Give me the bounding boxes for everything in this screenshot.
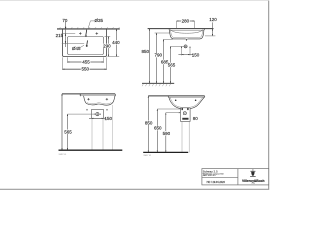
fixation view: trap pointer arrows: [94, 114, 96, 115]
trap view: 650 stub: [157, 108, 180, 110]
trap view: fixation stud left: [181, 108, 183, 110]
plan view: leader for diameter 45: [79, 45, 84, 48]
svg-text:565: 565: [64, 129, 72, 134]
svg-text:440: 440: [112, 40, 120, 45]
fixation view: left triangle mark: [86, 109, 88, 111]
fixation view: dim 150: [89, 117, 106, 119]
svg-text:Villeroy&Boch: Villeroy&Boch: [242, 179, 264, 183]
fixation view: left fixation cross: [87, 98, 89, 100]
trap view: apron inner line: [170, 97, 203, 107]
svg-text:70: 70: [62, 18, 68, 23]
front view: floor line: [142, 82, 174, 84]
fixation view: right pipe line: [102, 118, 104, 150]
fixation view: right triangle mark: [106, 109, 108, 111]
plan view: basin outer rect: [63, 29, 107, 57]
fixation view: trap box: [91, 110, 103, 119]
svg-text:150: 150: [105, 116, 113, 121]
trap view: left fixation dot: [175, 100, 177, 102]
svg-text:9M87 01: 9M87 01: [59, 154, 68, 156]
front view: dim 150: [181, 46, 183, 55]
svg-text:80: 80: [193, 116, 199, 121]
page frame bottom: [0, 188, 269, 190]
front view: rim end caps: [169, 29, 204, 31]
front view: floor hatching: [142, 84, 171, 87]
plan view: drain slot: [86, 40, 89, 46]
svg-text:150: 150: [192, 52, 200, 57]
trap view: rim level line: [148, 95, 204, 97]
svg-text:550: 550: [81, 67, 89, 72]
svg-text:215: 215: [56, 33, 64, 38]
trap view: right fixation dot: [195, 100, 197, 102]
title block divider vertical: [237, 169, 239, 185]
trap view: trap circle: [183, 112, 186, 115]
trap view: 590 stub: [166, 112, 179, 114]
svg-text:790: 790: [154, 53, 162, 58]
front view: dim 280: [177, 20, 195, 22]
front view: apron inner line: [171, 30, 203, 37]
plan view: wall hatching: [60, 27, 120, 28]
fixation view: right fixation cross: [106, 98, 108, 100]
trap view: dim line 650: [156, 109, 158, 152]
front view: trap level line: [171, 45, 185, 47]
front view: 685 extension stub: [164, 38, 173, 40]
front view: inner bowl curve: [170, 29, 203, 33]
plan view: wall line: [57, 28, 120, 30]
trap view: fixation stud right: [187, 108, 189, 110]
fixation view: rim level line: [62, 93, 115, 95]
trap view: dim line 590: [165, 113, 167, 153]
front view: dim 120: [212, 22, 214, 36]
front view: rim underside line: [170, 29, 204, 31]
svg-text:565: 565: [168, 62, 176, 67]
trap view: outlet bar: [182, 118, 188, 120]
front view: dim line 685: [163, 39, 165, 83]
fixation view: trap level stub: [68, 113, 96, 115]
plan view: dim 455: [67, 57, 69, 63]
front view: drain stub: [186, 39, 188, 41]
fixation view: rim underside: [80, 95, 115, 97]
plan view: dim 290: [105, 36, 111, 38]
title block frame: [202, 169, 269, 185]
plan view: dim 550: [62, 57, 64, 70]
plan view: leader line for diameter 35: [90, 20, 94, 22]
title block divider horizontal: [202, 176, 238, 178]
trap view: rim underside: [169, 96, 205, 98]
svg-text:Ø35: Ø35: [95, 18, 104, 23]
front view: dim line 790: [156, 33, 158, 83]
svg-text:4A07 5001 001: 4A07 5001 001: [203, 174, 216, 177]
svg-text:Ø45: Ø45: [72, 46, 81, 51]
svg-text:120: 120: [209, 17, 217, 22]
plan view: tap hole slot: [85, 30, 88, 36]
svg-text:850: 850: [145, 120, 153, 125]
svg-text:1748: 1748: [252, 183, 256, 185]
svg-text:590: 590: [163, 131, 171, 136]
svg-text:280: 280: [182, 19, 190, 24]
fixation view: floor line: [59, 149, 123, 151]
plan view: dim 440: [108, 56, 120, 58]
plan view: tap hole center line: [62, 33, 75, 35]
fixation view: apron outline: [84, 96, 115, 105]
svg-text:650: 650: [154, 126, 162, 131]
svg-text:850: 850: [141, 49, 149, 54]
fixation view: rim end caps: [80, 94, 115, 96]
V&B logo amphora: [250, 170, 256, 177]
fixation view: apron inner line: [87, 103, 111, 104]
front view: 790 extension stub: [155, 32, 170, 34]
plan view: left chain dimension line: [65, 22, 67, 47]
fixation view: outer height dim: [61, 94, 63, 150]
fixation view: left pipe line: [91, 118, 93, 150]
trap view: apron outline: [169, 97, 204, 108]
plan view: left tap hole cross: [79, 33, 82, 35]
svg-text:290: 290: [103, 43, 111, 48]
svg-text:9M87 02: 9M87 02: [143, 155, 152, 157]
svg-text:HO / 29.04.2020: HO / 29.04.2020: [207, 181, 226, 184]
trap view: trap box: [181, 108, 191, 122]
trap view: floor line: [143, 151, 188, 153]
fixation view: dim line 565: [67, 114, 69, 150]
page frame right: [268, 1, 270, 190]
plan view: inner bowl rect: [68, 37, 104, 55]
front view: dim line 565: [170, 46, 172, 83]
page frame top: [0, 0, 269, 2]
svg-text:455: 455: [82, 60, 90, 65]
front view: apron outer: [170, 30, 204, 39]
fixation view: outer right line: [112, 105, 114, 150]
fixation view: trap circle: [96, 113, 99, 116]
plan view: drain center line: [62, 43, 84, 45]
trap view: rim end caps: [168, 96, 205, 98]
front view: rim level line: [148, 28, 214, 30]
plan view: right tap hole cross: [96, 33, 99, 35]
trap view: pipe lines: [181, 121, 183, 152]
trap view: dim line 850: [147, 96, 149, 152]
front view: dim line 850: [149, 29, 151, 84]
front view: trap circle: [184, 45, 187, 48]
